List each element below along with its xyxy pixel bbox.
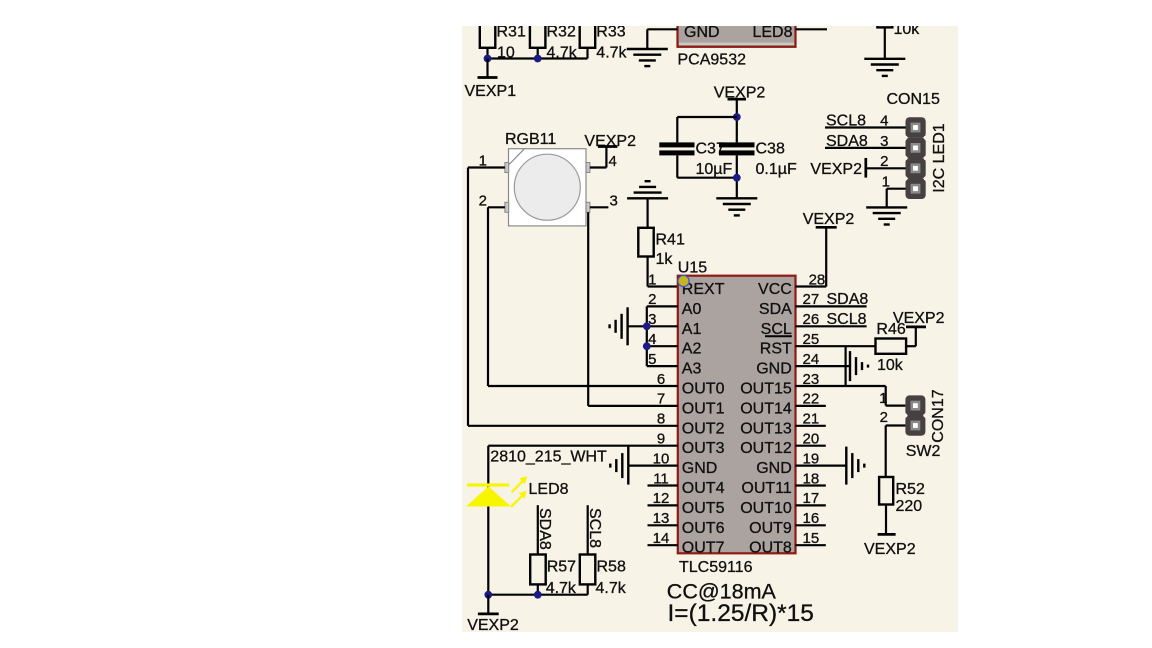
svg-text:OUT11: OUT11 [741,480,791,497]
pin 13 U15 [648,510,678,527]
junction [484,591,492,599]
svg-text:10µF: 10µF [696,161,733,178]
wire pin1 net [648,257,678,287]
LED module RGB11 [505,131,590,226]
pin 19 U15 [796,450,847,467]
svg-text:VEXP2: VEXP2 [893,310,945,327]
junction [534,55,542,63]
svg-text:RST: RST [760,341,792,358]
power VEXP2 [803,211,855,228]
connector CON17 [903,389,947,460]
svg-text:220: 220 [896,498,923,515]
pin 6 U15 / wire OUT0 [488,371,678,388]
net SCL8 vertical [586,505,603,554]
capacitor C38 [719,141,797,179]
pin 1 RGB11 [468,153,505,170]
junction [733,113,741,121]
power VEXP2 [864,534,916,558]
resistor 10k (partial) [877,8,920,38]
svg-text:OUT15: OUT15 [740,381,792,398]
svg-text:R41: R41 [656,232,685,249]
svg-text:C38: C38 [756,141,785,158]
svg-text:OUT14: OUT14 [740,400,792,417]
pin 17 U15 [796,490,826,507]
pin 3 CON15 / net SDA8 [825,133,906,150]
IC U15 TLC59116 [678,260,796,576]
pin 21 U15 [796,411,826,428]
power VEXP2 [893,310,945,327]
wire VEXP1 bus [488,57,588,59]
svg-text:CON17: CON17 [930,389,947,442]
pin 28 U15 / wire VCC [796,227,827,288]
pin 11 U15 [648,470,678,487]
svg-text:LED8: LED8 [752,24,792,41]
wire [677,117,737,142]
junction [534,591,542,599]
svg-text:VEXP2: VEXP2 [803,211,855,228]
svg-text:OUT12: OUT12 [740,440,792,457]
svg-text:U15: U15 [678,260,707,277]
svg-text:PCA9532: PCA9532 [678,52,747,69]
svg-text:OUT7: OUT7 [682,540,725,557]
ground (sideways) [610,307,628,345]
svg-text:GND: GND [684,24,720,41]
svg-text:VEXP2: VEXP2 [864,541,916,558]
wire [587,212,589,406]
junction [643,342,651,350]
svg-text:TLC59116: TLC59116 [679,559,753,576]
resistor R57 [530,555,577,598]
svg-text:A2: A2 [682,341,702,358]
resistor R32 [530,12,578,62]
svg-text:2: 2 [479,192,487,209]
svg-text:OUT9: OUT9 [749,520,792,537]
junction [643,322,651,330]
pin 10 U15 [628,450,678,467]
power VEXP2 [467,595,519,634]
svg-text:OUT10: OUT10 [740,500,792,517]
svg-text:4.7k: 4.7k [596,45,627,62]
note current setting [667,580,814,627]
svg-text:VCC: VCC [758,281,792,298]
svg-text:OUT6: OUT6 [682,520,725,537]
wire PCA9532 LED8 pin [796,28,828,30]
pin 2 U15 [647,291,678,308]
wire [885,505,887,535]
svg-text:1: 1 [879,390,887,407]
svg-text:OUT13: OUT13 [740,420,792,437]
wire [844,346,846,386]
wire PCA9532 GND pin [647,29,677,49]
net SDA8 vertical [536,505,553,554]
junction [733,174,741,182]
svg-text:SDA: SDA [759,301,792,318]
pin 2 RGB11 [479,192,505,209]
wire [646,198,648,228]
wire [884,27,886,58]
pin 20 U15 [796,431,826,448]
svg-text:GND: GND [756,361,792,378]
svg-text:SW2: SW2 [906,443,941,460]
pin 2 CON17 [880,409,906,477]
pin 1 CON15 [882,174,906,208]
svg-text:1k: 1k [656,251,674,268]
power VEXP2 [714,84,766,101]
svg-text:SDA8: SDA8 [536,508,553,550]
ground (sideways) [850,351,868,381]
svg-text:R31: R31 [497,24,526,41]
wire to CON17 [886,386,906,406]
wire [467,168,469,426]
svg-text:CON15: CON15 [887,91,940,108]
ground [866,207,907,224]
svg-text:2810_215_WHT: 2810_215_WHT [490,449,607,466]
svg-text:OUT3: OUT3 [682,440,725,457]
pin 4 CON15 / net SCL8 [825,113,906,130]
svg-text:I2C LED1: I2C LED1 [931,123,948,192]
svg-text:VEXP1: VEXP1 [465,83,517,100]
ground [716,198,757,215]
IC PCA9532 (partial) [678,12,796,69]
svg-text:R32: R32 [547,24,576,41]
svg-text:2: 2 [880,409,888,426]
ground [864,59,905,76]
pin 4 RGB11 [590,147,617,171]
svg-text:VEXP2: VEXP2 [467,617,519,634]
pin 2 CON15 / power VEXP2 [810,153,905,178]
resistor R46 [876,321,907,374]
svg-text:GND: GND [756,460,792,477]
svg-text:OUT8: OUT8 [749,540,792,557]
resistor R31 [480,12,526,62]
pin 16 U15 [796,510,826,527]
pin 3 U15 [628,311,678,328]
resistor R41 [638,228,685,268]
wire A0-A3 tie [646,306,648,366]
svg-text:OUT0: OUT0 [682,381,725,398]
svg-text:GND: GND [682,460,718,477]
svg-text:R33: R33 [596,24,625,41]
svg-text:A0: A0 [682,301,702,318]
svg-text:4.7k: 4.7k [596,580,627,597]
pin 3 RGB11 [590,192,618,209]
svg-text:3: 3 [610,192,618,209]
resistor R52 [879,477,925,515]
pin 5 U15 [647,351,678,368]
ground (sideways) [846,447,864,485]
pin 26 U15 / net SCL8 [796,311,867,328]
resistor R58 [580,555,627,598]
svg-text:VEXP2: VEXP2 [810,161,862,178]
pin 9 U15 / wire OUT3 [488,431,678,448]
pin 4 U15 [647,331,678,348]
wire [487,207,489,386]
svg-text:OUT1: OUT1 [682,400,725,417]
svg-text:R57: R57 [547,559,576,576]
pin 18 U15 [796,470,826,487]
pin 25 U15 / wire RST [796,331,876,348]
resistor R33 [580,12,628,62]
capacitor C37 [659,141,732,179]
wire [906,327,916,346]
pin 7 U15 / wire OUT1 [588,391,678,408]
connector CON15 [887,91,949,199]
wire [736,99,738,142]
schematic sheet background [462,26,958,632]
svg-text:10k: 10k [877,357,904,374]
svg-text:OUT5: OUT5 [682,500,725,517]
pin 14 U15 [648,530,678,547]
power VEXP1 [465,59,517,101]
svg-text:SCL8: SCL8 [586,508,603,548]
pin 24 U15 [796,351,851,368]
svg-text:OUT2: OUT2 [682,420,725,437]
pin 15 U15 [796,530,826,547]
wire [736,155,738,198]
svg-text:1: 1 [648,271,656,288]
pin 8 U15 / wire OUT2 [468,411,678,428]
power VEXP2 [584,133,636,150]
svg-text:LED8: LED8 [529,481,569,498]
pin 1 marker [678,275,689,286]
wire LED net [487,446,489,595]
ground (sideways) [610,447,628,485]
wire [677,155,737,177]
svg-text:I=(1.25/R)*15: I=(1.25/R)*15 [668,600,814,627]
pin 22 U15 [796,391,826,408]
svg-text:OUT4: OUT4 [682,480,725,497]
LED LED8 [466,476,569,507]
svg-text:R58: R58 [597,559,626,576]
pin 27 U15 / net SDA8 [796,291,869,308]
ground [627,49,668,66]
pin 12 U15 [648,490,678,507]
junction [484,55,492,63]
ground (flipped) [627,181,668,198]
svg-text:A1: A1 [682,321,702,338]
wire bottom bus [488,594,587,596]
svg-text:0.1µF: 0.1µF [756,161,797,178]
svg-text:R52: R52 [896,481,925,498]
pin 23 U15 / wire OUT15 [796,371,886,388]
svg-text:RGB11: RGB11 [505,131,556,148]
svg-text:A3: A3 [682,361,702,378]
svg-text:4: 4 [609,153,617,170]
